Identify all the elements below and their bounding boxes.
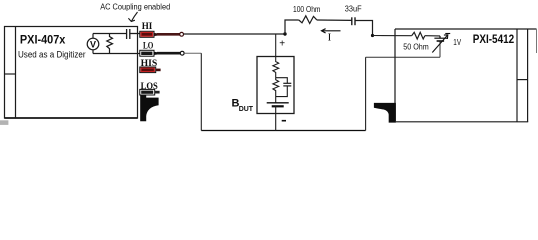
svg-text:100 Ohm: 100 Ohm (293, 4, 321, 14)
connector plug LO (140, 50, 184, 56)
wire bottom internal (93, 53, 140, 55)
resistor input impedance (107, 34, 113, 54)
svg-text:DUT: DUT (239, 106, 254, 113)
wire source bottom lead (439, 41, 441, 57)
svg-text:Used as a Digitizer: Used as a Digitizer (18, 50, 86, 60)
PXI-407x digitizer module box (5, 27, 138, 119)
svg-text:1V: 1V (453, 37, 461, 47)
wire bus up right (365, 57, 367, 130)
annotation arrow (128, 12, 137, 22)
wire return into generator (366, 56, 440, 58)
resistor R1 100 Ohm (299, 16, 317, 24)
connector plug HIS (140, 67, 161, 73)
capacitor DUT (283, 83, 291, 86)
capacitor C1 33uF (352, 17, 355, 25)
capacitor AC coupling (127, 29, 140, 39)
panel connector wedge right (374, 103, 396, 123)
PXI-5412 generator module box (395, 29, 537, 122)
chassis fragment bottom-left (0, 120, 8, 125)
voltmeter V1 (87, 34, 99, 54)
node junction dot (283, 32, 286, 35)
node corner dot (371, 34, 374, 37)
svg-text:50 Ohm: 50 Ohm (403, 41, 429, 51)
variable arrow on source (432, 34, 450, 53)
B_DUT box (257, 57, 294, 114)
svg-text:AC Coupling enabled: AC Coupling enabled (100, 2, 170, 12)
wire into generator (373, 35, 412, 37)
panel connector wedge left (140, 95, 158, 121)
svg-text:HI: HI (142, 22, 153, 32)
battery DUT (267, 102, 289, 104)
wire tee to cap branch (276, 78, 288, 84)
svg-text:PXI-407x: PXI-407x (20, 33, 66, 47)
wire LO down (200, 53, 202, 130)
resistor DUT parallel (273, 78, 279, 97)
current arrow I (322, 29, 341, 33)
wire bottom bus (201, 130, 365, 132)
connector plug LOS (140, 89, 160, 95)
svg-text:+: + (279, 39, 285, 50)
wire R1 to C1 (317, 19, 352, 21)
wire to battery (275, 97, 277, 103)
wire top internal (93, 33, 126, 35)
connector plug HI (140, 31, 184, 37)
wire HI to node (184, 33, 285, 35)
resistor 50 Ohm (412, 32, 425, 39)
wire battery to bus (275, 106, 277, 130)
source V2 1V (434, 36, 447, 41)
svg-text:PXI-5412: PXI-5412 (473, 32, 515, 46)
wire C1 to corner (355, 21, 373, 36)
wire R2 to source (425, 35, 440, 37)
wire riser to 100 Ohm (285, 20, 299, 34)
svg-text:I: I (328, 32, 332, 44)
wire LO return (gray) (184, 52, 201, 54)
label minus (282, 120, 286, 122)
svg-text:V: V (90, 39, 96, 49)
svg-text:33uF: 33uF (345, 3, 362, 13)
wire node to B_DUT (tee) (275, 34, 277, 61)
resistor DUT series (273, 61, 279, 78)
wire cap bottom (276, 86, 288, 97)
